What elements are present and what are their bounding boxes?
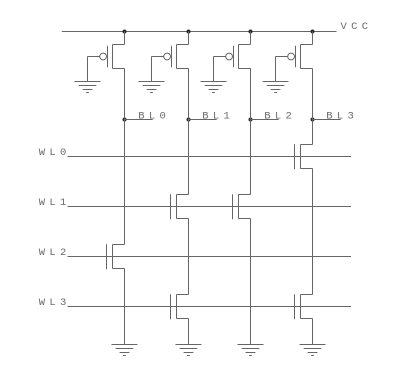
- transistor nmos cell Q11 (WL1 x BL1): [171, 194, 189, 219]
- node VCC/BL2 junction: [249, 30, 253, 34]
- svg-text:WL0: WL0: [39, 147, 71, 159]
- wire VCC rail: [62, 31, 337, 33]
- label WL0 net: [39, 147, 71, 159]
- label VCC net: [341, 21, 373, 33]
- node BL2 junction: [249, 118, 253, 122]
- node BL0 junction: [123, 118, 127, 122]
- ground (bottom of BL2): [238, 345, 264, 356]
- svg-text:VCC: VCC: [341, 21, 373, 33]
- wire BL3 label tap: [313, 119, 341, 121]
- label BL2 net: [264, 111, 296, 123]
- node VCC/BL1 junction: [187, 30, 191, 34]
- svg-text:BL3: BL3: [326, 111, 358, 123]
- pmos pull-up transistor MP3: [276, 32, 313, 82]
- label WL1 net: [39, 197, 71, 209]
- wire BL1 vertical: [188, 69, 190, 345]
- ground (bottom of BL0): [112, 345, 138, 356]
- node BL3 junction: [311, 118, 315, 122]
- wire BL2 label tap: [251, 119, 279, 121]
- transistor nmos cell Q33 (WL3 x BL3): [295, 294, 313, 319]
- ground (bottom of BL3): [300, 345, 326, 356]
- transistor nmos cell Q20 (WL2 x BL0): [107, 244, 125, 269]
- wire BL1 label tap: [189, 119, 217, 121]
- label BL3 net: [326, 111, 358, 123]
- node VCC/BL3 junction: [311, 30, 315, 34]
- node BL1 junction: [187, 118, 191, 122]
- wire word line WL1: [68, 206, 352, 208]
- transistor nmos cell Q12 (WL1 x BL2): [233, 194, 251, 219]
- svg-text:WL2: WL2: [39, 247, 71, 259]
- label BL0 net: [138, 111, 170, 123]
- wire word line WL0: [68, 156, 352, 158]
- wire BL3 vertical: [312, 69, 314, 345]
- ground (bottom of BL1): [176, 345, 202, 356]
- wire word line WL3: [68, 306, 352, 308]
- wire BL0 label tap: [125, 119, 153, 121]
- ground (gate of MP0): [75, 82, 101, 93]
- ground (gate of MP3): [263, 82, 289, 93]
- svg-text:BL1: BL1: [202, 111, 234, 123]
- label BL1 net: [202, 111, 234, 123]
- wire word line WL2: [68, 256, 352, 258]
- label WL3 net: [39, 297, 71, 309]
- pmos pull-up transistor MP1: [152, 32, 189, 82]
- label WL2 net: [39, 247, 71, 259]
- transistor nmos cell Q31 (WL3 x BL1): [171, 294, 189, 319]
- svg-text:BL2: BL2: [264, 111, 296, 123]
- svg-text:BL0: BL0: [138, 111, 170, 123]
- svg-text:WL3: WL3: [39, 297, 71, 309]
- transistor nmos cell Q03 (WL0 x BL3): [295, 144, 313, 169]
- pmos pull-up transistor MP0: [88, 32, 125, 82]
- wire BL0 vertical: [124, 69, 126, 345]
- ground (gate of MP1): [139, 82, 165, 93]
- pmos pull-up transistor MP2: [214, 32, 251, 82]
- svg-text:WL1: WL1: [39, 197, 71, 209]
- ground (gate of MP2): [201, 82, 227, 93]
- node VCC/BL0 junction: [123, 30, 127, 34]
- wire BL2 vertical: [250, 69, 252, 345]
